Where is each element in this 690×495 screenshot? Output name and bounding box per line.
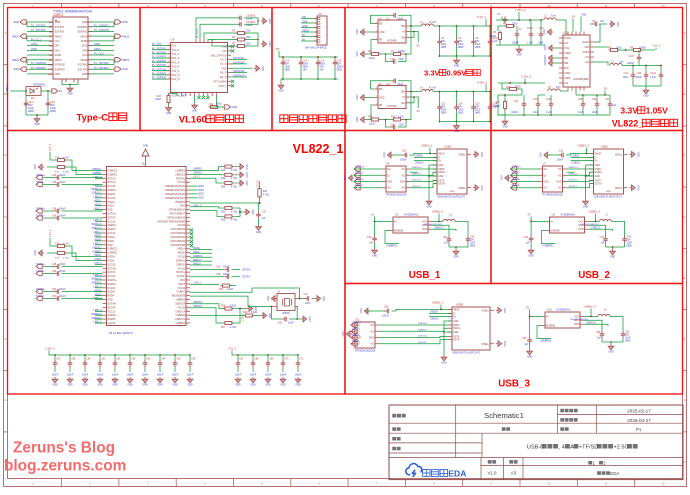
svg-text:GND: GND [503, 308, 506, 314]
port [36, 264, 42, 268]
svg-text:USBOC2: USBOC2 [92, 247, 102, 249]
svg-text:GPIO2/HDD2: GPIO2/HDD2 [171, 236, 186, 239]
svg-text:1uH: 1uH [556, 86, 561, 89]
capacitor C26 [473, 91, 475, 93]
U5 right pin USBLED4/GPIO30 [186, 185, 190, 187]
svg-text:GND: GND [544, 55, 547, 61]
USBC1 right pin B7 wire [88, 49, 114, 51]
svg-text:20Ω: 20Ω [246, 30, 251, 33]
ground below C65 [172, 377, 178, 383]
wire USB3 SHELL bottom to ground [490, 343, 494, 345]
svg-text:PL_SSTXP1: PL_SSTXP1 [152, 47, 167, 50]
no-connect U3 bottom pin [206, 96, 209, 99]
U5 left pin SSRX1- [103, 193, 107, 195]
svg-text:USBPE2: USBPE2 [108, 252, 118, 255]
capacitor C107 [638, 50, 640, 55]
wire USBC1 shield to ground [62, 83, 78, 85]
svg-text:GND: GND [503, 341, 506, 347]
svg-text:EN: EN [402, 36, 406, 39]
svg-text:USBOC3: USBOC3 [193, 173, 203, 175]
svg-text:2.2uF: 2.2uF [527, 42, 534, 45]
U12 left pin FB2 [559, 62, 563, 64]
ground below C69 [265, 377, 271, 383]
ground below C58 [67, 377, 73, 383]
svg-text:100nF: 100nF [82, 375, 89, 377]
svg-text:TX2_N: TX2_N [172, 70, 180, 73]
svg-text:5V: 5V [276, 47, 280, 51]
diode D1 symbol [30, 88, 38, 94]
ground far left of U7 [505, 175, 511, 181]
svg-text:DP2: DP2 [82, 48, 88, 52]
svg-text:SSTXP2: SSTXP2 [78, 67, 89, 71]
resistor [221, 284, 232, 287]
svg-text:GND: GND [637, 152, 640, 158]
U5 right pin VCC33 [186, 224, 190, 226]
capacitor [237, 16, 244, 21]
svg-text:GPIO5/EXTWRON/WAKE: GPIO5/EXTWRON/WAKE [157, 220, 185, 223]
wire R11 connections [502, 83, 508, 89]
wire ENB of U9 [546, 230, 550, 232]
svg-text:SSRX3-: SSRX3- [108, 283, 117, 286]
wire USBC1 right port verticals [113, 22, 115, 27]
capacitor C27 [386, 120, 391, 128]
U5 right pin GPIO6/USBSUS [186, 216, 190, 218]
U5 right pin VCC10 [186, 256, 190, 258]
svg-text:100nF: 100nF [265, 375, 272, 377]
U5 left pin HSD4+ [103, 291, 107, 293]
svg-text:SSTX3+: SSTX3+ [108, 267, 118, 270]
resistor R16 [392, 118, 403, 121]
svg-text:C1T: C1T [222, 50, 227, 53]
svg-text:CC1: CC1 [55, 39, 61, 43]
svg-text:NC: NC [402, 175, 406, 177]
svg-text:USBD2-: USBD2- [572, 156, 581, 158]
svg-text:GND: GND [122, 67, 128, 71]
U5 left pin USBOC1 [103, 170, 107, 172]
svg-text:100nF: 100nF [512, 42, 519, 45]
U5 right pin GPIO3/HDD3 [186, 232, 190, 234]
resistor R2 [236, 32, 247, 35]
capacitor C62 [129, 354, 131, 356]
capacitor C68 [252, 354, 254, 356]
USBC1 left pin A7 wire [27, 49, 53, 51]
U5 left pin VCC10 [103, 197, 107, 199]
svg-text:0805: 0805 [625, 340, 631, 343]
ground below C4 row [516, 47, 522, 53]
capacitor C17 bootstrap [371, 81, 392, 89]
svg-text:R11: R11 [506, 86, 511, 89]
svg-text:4.7uH: 4.7uH [429, 87, 436, 90]
IC U1 MT2492 body [378, 20, 406, 43]
port VBUS left of USBC1 lower [20, 58, 26, 62]
U5 left pin SSTX1+ [103, 177, 107, 179]
svg-text:CM1_STATUS: CM1_STATUS [210, 54, 226, 57]
wires U5 LED rows with net labels [190, 185, 198, 187]
U5 left pin HSD3- [103, 259, 107, 261]
U2 right pin SW [406, 91, 410, 93]
svg-text:VDD: VDD [108, 299, 113, 302]
svg-text:100nF: 100nF [635, 76, 642, 79]
wire R3 to bottom rail [499, 41, 501, 46]
svg-text:Zeruns's Blog: Zeruns's Blog [13, 440, 115, 457]
svg-text:SSTX0-: SSTX0- [177, 275, 186, 278]
svg-text:1.05V_2: 1.05V_2 [93, 208, 102, 210]
svg-text:R21: R21 [263, 191, 268, 193]
svg-text:1uH: 1uH [619, 61, 624, 64]
wire U2 SW to inductor [410, 91, 422, 93]
resistor [504, 100, 507, 111]
svg-text:GPIO7/SMDAT: GPIO7/SMDAT [169, 213, 186, 216]
ground left of R6 [360, 51, 366, 57]
U5 left pin VCC33 [103, 263, 107, 265]
port [36, 296, 42, 300]
svg-text:4.7kΩ: 4.7kΩ [231, 186, 237, 188]
svg-text:GND: GND [454, 130, 460, 133]
svg-text:SSTX1-C: SSTX1-C [412, 186, 422, 188]
port [36, 216, 42, 220]
svg-text:U6: U6 [395, 213, 399, 217]
U3 left pin RX1_P wire [152, 57, 171, 59]
wire OCB net label [585, 228, 589, 230]
U5 right pin USBOC4 [186, 310, 190, 312]
title block label 绘制 [392, 437, 400, 441]
svg-text:C19: C19 [637, 72, 642, 75]
U5 left pin VCC10 [103, 275, 107, 277]
no-connect U3 bottom pin [197, 96, 200, 99]
ground below C39 [372, 248, 378, 254]
port VBUS right of USBC1 [115, 34, 121, 38]
svg-text:10uF: 10uF [538, 42, 544, 45]
svg-text:22kΩ: 22kΩ [369, 57, 375, 60]
ground output caps U2 [454, 124, 460, 130]
USB3 pin GND [448, 320, 452, 322]
wire output caps bottom rail to ground [633, 85, 661, 87]
svg-text:0805: 0805 [285, 69, 291, 72]
title block label 创建日期 [560, 409, 577, 413]
svg-text:USB5V_3: USB5V_3 [584, 304, 596, 308]
port 5V right of D1 [52, 89, 58, 93]
U4 right pin [406, 174, 410, 176]
svg-text:0805: 0805 [458, 46, 464, 49]
svg-text:1.05V_2: 1.05V_2 [93, 220, 102, 222]
svg-text:GND: GND [583, 206, 589, 209]
wire USBC1 left port GND vertical [26, 22, 28, 27]
U3 left pin RX2_P wire [152, 74, 171, 76]
resistor R24 REXT [190, 283, 219, 285]
svg-text:USBOC3: USBOC3 [193, 302, 203, 304]
U5 right pin USBDO [186, 291, 190, 293]
svg-text:GND: GND [268, 42, 271, 48]
capacitor [527, 337, 532, 344]
U12 left pin GND2 [559, 77, 563, 79]
svg-text:C29: C29 [514, 100, 519, 103]
wire C33 to VBUS pin [566, 153, 594, 155]
svg-text:EN/ENB: EN/ENB [551, 230, 560, 233]
svg-text:EN: EN [402, 102, 406, 105]
svg-text:GPIO6/USBSUS: GPIO6/USBSUS [167, 216, 185, 219]
U5 left pin SSTX4+ [103, 302, 107, 304]
U3 right pin wire with net label [231, 59, 247, 61]
capacitor C8 right of U12 top [590, 23, 593, 25]
USB1 pin SSTX- [433, 180, 437, 182]
svg-text:USB_2: USB_2 [578, 270, 610, 281]
wires U4 to USB1 connector [410, 168, 437, 170]
ground below C71 [295, 377, 301, 383]
svg-text:BS: BS [379, 88, 383, 91]
svg-text:4.7kΩ: 4.7kΩ [231, 178, 237, 180]
svg-text:D1-: D1- [544, 175, 548, 177]
capacitor C14 output [632, 66, 634, 73]
svg-text:100nF: 100nF [400, 159, 407, 162]
svg-text:, 4: , 4 [559, 445, 565, 451]
svg-text:10uF: 10uF [623, 76, 629, 79]
ground below C37 [256, 225, 262, 231]
svg-text:GND: GND [480, 152, 483, 158]
svg-text:1.05V_2: 1.05V_2 [93, 197, 102, 199]
svg-text:SHELL: SHELL [458, 154, 466, 157]
svg-text:SSRX2-C: SSRX2-C [569, 174, 579, 176]
svg-text:ATT_SNKM: ATT_SNKM [213, 80, 226, 83]
port [36, 182, 42, 186]
svg-text:SMDAT: SMDAT [193, 259, 201, 262]
svg-text:SSRX3-C: SSRX3-C [92, 283, 102, 285]
U12 bottom pins [567, 87, 569, 91]
svg-text:LED3: LED3 [198, 190, 204, 192]
U3 right pin RX_P [228, 72, 232, 74]
svg-text:100nF: 100nF [557, 159, 564, 162]
svg-text:HSD1-: HSD1- [108, 205, 115, 208]
svg-text:SSTX2-: SSTX2- [36, 215, 45, 218]
svg-text:blog.zeruns.com: blog.zeruns.com [4, 458, 126, 475]
svg-text:TX1_N: TX1_N [172, 53, 180, 56]
port [351, 329, 357, 333]
svg-text:D1+: D1+ [356, 325, 361, 327]
IC U9 body [550, 217, 585, 233]
U11 right pin [375, 330, 379, 332]
svg-text:SSTX4-: SSTX4- [36, 295, 45, 298]
wire U2 IN EN to 5V [410, 97, 418, 108]
wire R12 to port [218, 106, 224, 108]
svg-text:SHELL: SHELL [458, 187, 466, 190]
svg-text:USB3-090175-18LPC15-F1: USB3-090175-18LPC15-F1 [437, 196, 466, 198]
ground below C21 C22 [34, 117, 40, 123]
svg-text:REXT: REXT [179, 283, 186, 286]
USB3 pin D- [448, 313, 452, 315]
svg-text:VCC10: VCC10 [108, 185, 116, 188]
svg-text:HSD4-: HSD4- [95, 294, 102, 296]
svg-text:1uF: 1uF [262, 218, 267, 220]
wire U5 XO to crystal bottom [190, 296, 272, 306]
svg-text:GPIO0/HDD0: GPIO0/HDD0 [171, 244, 186, 247]
U4 right pin [406, 187, 410, 189]
ground left of C32 [387, 152, 393, 158]
svg-text:GND: GND [527, 356, 533, 359]
svg-text:GND: GND [265, 384, 271, 387]
svg-text:SSRX3-C: SSRX3-C [418, 330, 428, 332]
ground below C60 [97, 377, 103, 383]
U3 bottom pins [176, 93, 178, 97]
crystal X1 pins [274, 298, 278, 300]
svg-text:1uF: 1uF [526, 242, 531, 245]
U5 right pin VBUS/DETB [186, 295, 190, 297]
capacitor [24, 101, 29, 108]
U12 right pin LX1 [590, 56, 594, 58]
USBC1 left pin A1 wire [27, 21, 53, 23]
U5 right pin VCC33 [186, 306, 190, 308]
svg-text:TX_P: TX_P [220, 59, 227, 62]
svg-text:C107: C107 [628, 55, 634, 58]
svg-text:GND: GND [453, 331, 459, 334]
capacitor C64 [159, 354, 161, 356]
svg-text:USBPE4: USBPE4 [176, 322, 186, 325]
svg-text:SSTX2+: SSTX2+ [36, 208, 46, 211]
USBC1 right pin B8 wire [88, 54, 114, 56]
wire USBC1 left port VBUS lower vertical [26, 60, 28, 65]
U12 right pin FB1 [590, 46, 594, 48]
svg-text:C57: C57 [56, 359, 61, 361]
capacitor C23 [439, 91, 441, 93]
wire rows below left [95, 310, 103, 312]
svg-text:HDD0+: HDD0+ [177, 248, 186, 251]
svg-text:VBUS: VBUS [122, 34, 129, 38]
wire filter cap bottom rail [281, 78, 338, 80]
capacitor C1 bootstrap [371, 15, 392, 23]
wire USB2 SHELL top to ground [624, 153, 628, 155]
capacitor C4 power module [516, 26, 518, 31]
USBC1 right pin B6 wire [88, 45, 114, 47]
svg-text:SSTX2+: SSTX2+ [512, 178, 522, 181]
svg-text:VDD: VDD [108, 209, 113, 212]
wire USB3 GND pins to ground [444, 321, 452, 355]
wire U1 GND to ground [366, 31, 374, 33]
svg-text:SSTX1-: SSTX1- [36, 181, 45, 184]
svg-text:USBOC4: USBOC4 [193, 306, 203, 308]
svg-text:PVIN1: PVIN1 [564, 37, 572, 40]
svg-text:E: E [4, 276, 6, 280]
svg-text:GND: GND [616, 22, 619, 28]
ground below C62 [127, 377, 133, 383]
wire R21 node to C37 [259, 203, 260, 212]
U3 right pin C1T [228, 50, 232, 52]
svg-text:GND: GND [67, 93, 73, 96]
USB3 pin SSTX+ [448, 339, 452, 341]
svg-text:SSTX4+: SSTX4+ [36, 288, 46, 291]
wire 5V flag to cap rail [279, 51, 338, 57]
U1 right pin EN [406, 36, 410, 38]
U3 left pin RX2_N wire [152, 78, 171, 80]
IC U6 body [393, 217, 428, 233]
svg-text:USBPE2: USBPE2 [193, 169, 203, 171]
IC U2 MT2492 body [378, 86, 406, 109]
svg-text:SSRX2+: SSRX2+ [512, 165, 522, 168]
svg-text:IN: IN [551, 220, 554, 223]
svg-text:3.3V_1: 3.3V_1 [477, 15, 486, 19]
U11 left pin [351, 330, 355, 332]
svg-text:VL822_: VL822_ [612, 119, 645, 129]
U4 left pin [382, 174, 386, 176]
svg-text:PL_SSTXP2: PL_SSTXP2 [94, 66, 109, 70]
svg-text:SSTX3-: SSTX3- [352, 341, 360, 343]
svg-text:20Ω: 20Ω [246, 43, 251, 46]
wire R24 to crystal rail [230, 285, 236, 287]
resistor R5 [236, 45, 247, 48]
svg-text:VBUS: VBUS [595, 152, 602, 155]
svg-text:NC: NC [371, 344, 375, 346]
svg-text:USB1: USB1 [444, 145, 452, 149]
svg-text:SSTX3-: SSTX3- [36, 270, 45, 273]
svg-text:USBD2+: USBD2+ [572, 163, 582, 165]
wire cap bottom rail [26, 114, 48, 116]
svg-text:OCB: OCB [422, 228, 428, 231]
section box VL822 power module [491, 8, 683, 131]
ground below C57 [52, 377, 58, 383]
U5 left pin USBOC2 [103, 248, 107, 250]
resistor R27 [223, 322, 234, 325]
svg-text:C66: C66 [191, 359, 196, 361]
svg-text:USB_1: USB_1 [409, 270, 441, 281]
wire VBUS to D1 [10, 90, 26, 92]
U5 left pin VDD [103, 299, 107, 301]
title block company 嘉立创EDA [597, 471, 619, 476]
svg-text:USBPE3: USBPE3 [176, 299, 186, 302]
svg-text:5V: 5V [528, 213, 531, 217]
title block value 下载 [502, 427, 510, 431]
svg-text:1: 1 [376, 22, 377, 24]
capacitor [403, 153, 410, 158]
USBC1 left pin A3 wire [27, 30, 53, 32]
svg-text:VCC10: VCC10 [177, 256, 185, 259]
svg-text:PL_SSRXP1: PL_SSRXP1 [94, 23, 109, 27]
svg-text:VCC33: VCC33 [177, 287, 185, 290]
svg-text:SSRX1-: SSRX1- [108, 193, 117, 196]
svg-text:USBSUS: USBSUS [193, 256, 203, 258]
svg-text:HSD0+: HSD0+ [193, 248, 201, 250]
port [511, 173, 517, 177]
capacitor [447, 236, 452, 243]
ground right of R14 [238, 172, 244, 178]
no-connect U3 bottom pin [202, 96, 205, 99]
svg-text:100nF: 100nF [127, 375, 134, 377]
svg-text:VCC10: VCC10 [108, 232, 116, 235]
U5 right pin SSTX0+ [186, 271, 190, 273]
ground below U3 [192, 103, 198, 109]
svg-text:SSTX0+: SSTX0+ [176, 271, 186, 274]
svg-text:SUB2: SUB2 [81, 39, 88, 43]
svg-text:PL_SSRXN1: PL_SSRXN1 [94, 28, 110, 32]
svg-text:1uF: 1uF [597, 337, 602, 340]
svg-text:100nF: 100nF [223, 267, 230, 269]
port [36, 175, 42, 179]
svg-text:HSD3-: HSD3- [108, 259, 115, 262]
USBC1 shield pins bottom [61, 79, 63, 83]
svg-text:4.7kΩ: 4.7kΩ [63, 172, 69, 174]
ground right of R29 [261, 313, 267, 319]
ground left of C33 [544, 152, 550, 158]
capacitor [603, 236, 608, 243]
svg-text:2.2uF: 2.2uF [650, 76, 657, 79]
USB3 pin VBUS [448, 308, 452, 310]
ground right of R22 R23 [244, 209, 250, 215]
USBC1 left pin A2 wire [27, 26, 53, 28]
svg-text:PL_SSTXN1: PL_SSTXN1 [152, 52, 167, 55]
U5 right pin GPIO5/EXTWRON/WAKE [186, 220, 190, 222]
svg-text:100kΩ: 100kΩ [639, 47, 646, 50]
svg-text:USB_3: USB_3 [498, 379, 530, 390]
IC U11 ESD body [355, 322, 375, 348]
port GND right of USBC1 pin B1 [115, 20, 121, 24]
connector USB1 body [437, 149, 467, 194]
svg-text:4.7kΩ: 4.7kΩ [230, 327, 236, 329]
